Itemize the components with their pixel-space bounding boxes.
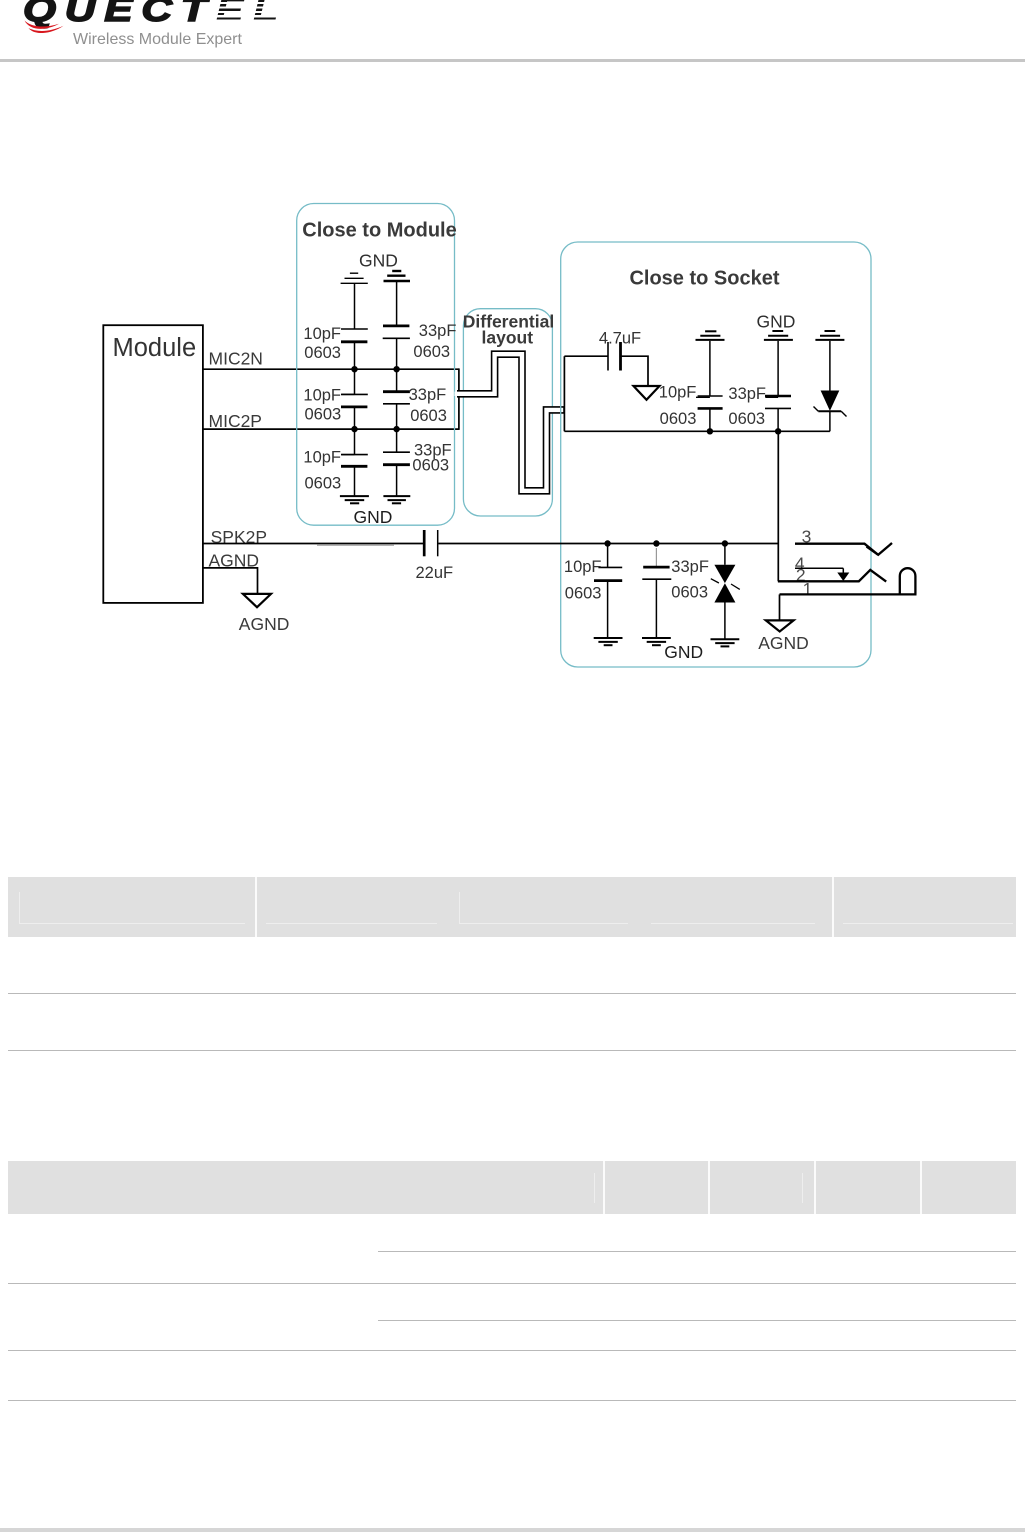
capacitor C12 33pF 0603 (SPK group)	[642, 548, 709, 637]
svg-text:10pF: 10pF	[659, 383, 697, 401]
ground (SPK group under 33pF)	[642, 638, 671, 645]
svg-text:MIC2N: MIC2N	[209, 348, 263, 368]
junction dots MIC2P	[351, 426, 400, 432]
svg-text:Close to Module: Close to Module	[302, 219, 456, 241]
svg-text:22uF: 22uF	[416, 564, 454, 582]
wire module AGND pin	[203, 568, 258, 594]
junction dots SPK2P	[604, 540, 728, 546]
svg-text:33pF: 33pF	[419, 322, 457, 340]
svg-text:0603: 0603	[304, 344, 341, 362]
wire SPK2P (right of 22uF)	[438, 543, 778, 545]
ground (socket, above TVS)	[815, 331, 844, 340]
table 2 header band	[8, 1161, 1016, 1214]
ground AGND (socket, open triangle)	[766, 620, 794, 631]
wire SPK2P artifact (gray)	[317, 544, 394, 546]
svg-text:10pF: 10pF	[303, 449, 341, 467]
svg-text:GND: GND	[664, 642, 703, 662]
svg-text:0603: 0603	[565, 585, 602, 603]
svg-text:0603: 0603	[412, 457, 449, 475]
diode D2 bidirectional TVS (SPK group)	[711, 544, 740, 640]
table 1 row line 2	[8, 1050, 1016, 1051]
bottom footer rule	[0, 1528, 1025, 1532]
junction dots mic bus	[707, 428, 782, 434]
jack J1 pin 1 line	[780, 593, 917, 595]
junction dots MIC2N	[351, 366, 400, 372]
Quectel logo wordmark	[23, 0, 287, 30]
wire mic bus	[564, 430, 830, 432]
svg-text:10pF: 10pF	[303, 325, 341, 343]
svg-text:GND: GND	[354, 507, 393, 527]
wire mic bus to jack pin2	[777, 431, 779, 581]
table 1 row line 1	[8, 993, 1016, 994]
jack J1 pin 3 contact	[795, 543, 892, 555]
svg-text:0603: 0603	[660, 410, 697, 428]
capacitor C8 10pF 0603 (socket mic bus)	[659, 341, 723, 431]
table 1 header band	[8, 877, 1016, 937]
svg-text:10pF: 10pF	[564, 558, 602, 576]
table 2 row lines	[378, 1251, 1016, 1252]
svg-text:33pF: 33pF	[728, 385, 766, 403]
svg-text:Close to Socket: Close to Socket	[629, 267, 779, 289]
svg-text:1: 1	[803, 579, 813, 599]
diode D1 zener (socket mic bus)	[814, 341, 847, 431]
top rule	[0, 59, 1025, 62]
capacitor C4 33pF 0603 (col2 middle)	[383, 369, 447, 429]
ground (socket, above 10pF)	[696, 331, 725, 340]
ground (bottom, col2)	[383, 496, 410, 503]
ground (top, col2, thick bars)	[384, 271, 411, 281]
capacitor C5 10pF 0603 (col1 bottom)	[303, 429, 367, 496]
wire pin1 to AGND	[779, 594, 781, 620]
svg-text:GND: GND	[757, 312, 796, 332]
ground (SPK group under TVS)	[711, 639, 740, 646]
wire MIC2N	[203, 368, 459, 370]
SCHEMATIC SVG placeholder	[0, 0, 1025, 700]
svg-text:33pF: 33pF	[671, 558, 709, 576]
svg-text:GND: GND	[359, 251, 398, 271]
svg-text:layout: layout	[482, 328, 534, 348]
svg-text:0603: 0603	[728, 410, 765, 428]
ground AGND (under 4.7uF, open triangle)	[634, 386, 660, 400]
wire MIC2P	[203, 428, 459, 430]
wire MIC pair vertical junction	[458, 368, 460, 430]
ground AGND (module, open triangle)	[243, 594, 271, 607]
logo red swoosh	[24, 18, 66, 33]
jack J1 sleeve hook	[900, 568, 916, 594]
svg-text:33pF: 33pF	[409, 386, 447, 404]
wire socket entry vertical	[563, 356, 565, 431]
capacitor C1 10pF 0603 (col1 top)	[303, 284, 367, 369]
ground (socket, above 33pF)	[764, 331, 793, 340]
svg-text:0603: 0603	[671, 583, 708, 601]
svg-text:MIC2P: MIC2P	[209, 411, 262, 431]
capacitor C11 10pF 0603 (SPK group)	[564, 544, 622, 638]
capacitor C2 33pF 0603 (col2 top)	[383, 282, 457, 370]
jack J1 pin 2 contact	[778, 570, 886, 582]
close-to-socket box	[561, 242, 871, 667]
wire differential pair serpentine (double-line)	[455, 354, 565, 491]
svg-text:AGND: AGND	[758, 633, 809, 653]
wire SPK2P	[203, 543, 423, 545]
module U1 box	[103, 325, 203, 603]
ground (top, col1, thin bars)	[341, 273, 368, 283]
svg-text:AGND: AGND	[239, 614, 290, 634]
svg-text:0603: 0603	[413, 343, 450, 361]
capacitor C9 33pF 0603 (socket mic bus)	[728, 341, 791, 431]
capacitor C10 22uF (series on SPK2P)	[416, 530, 454, 582]
close-to-module box	[297, 204, 457, 526]
svg-text:0603: 0603	[304, 474, 341, 492]
ground (SPK group under 10pF)	[594, 638, 623, 645]
ground (bottom, col1)	[340, 496, 369, 503]
svg-text:0603: 0603	[410, 407, 447, 425]
svg-text:Module: Module	[113, 334, 197, 362]
jack J1 pin 4 line with arrow	[795, 568, 849, 581]
tagline	[73, 31, 242, 49]
svg-text:10pF: 10pF	[303, 386, 341, 404]
capacitor C7 4.7uF (series)	[564, 330, 648, 386]
capacitor C3 10pF 0603 (col1 middle)	[303, 369, 367, 429]
svg-text:0603: 0603	[304, 405, 341, 423]
capacitor C6 33pF 0603 (col2 bottom)	[383, 429, 452, 496]
differential layout box	[463, 309, 554, 516]
